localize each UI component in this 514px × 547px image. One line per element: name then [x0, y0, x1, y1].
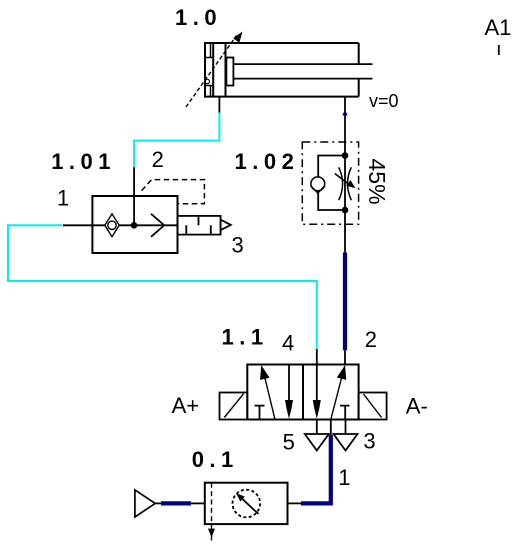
svg-text:2: 2	[365, 327, 377, 352]
svg-text:3: 3	[363, 429, 375, 454]
pilot A- box	[359, 393, 387, 420]
exhaust triangle at port 5	[305, 434, 329, 451]
cylinder 1.0 adjustable-cushioning arrow	[186, 32, 243, 108]
tick under A1	[498, 45, 500, 55]
wire: black stub into port 4	[316, 349, 318, 365]
wire: cylinder right port down to 1.02 (black)	[344, 97, 346, 156]
wire: navy from 1.02 to valve 1.1 port 2	[343, 252, 347, 350]
check valve of 1.02 (ball and seat)	[311, 177, 325, 193]
adjustment arrow of 1.02	[335, 174, 356, 189]
check valve of 1.01 (diamond and ball)	[105, 214, 119, 237]
wire: navy supply line from 0.1 up to valve port 1	[301, 435, 331, 504]
wire: port 5 stub	[316, 420, 318, 435]
compressed air supply triangle	[135, 490, 155, 517]
service unit dial (dashed circle)	[233, 490, 261, 518]
valve 1.1 chamber divider	[302, 365, 304, 420]
svg-text:1: 1	[338, 465, 350, 490]
cylinder 1.0 cushion spigot	[226, 58, 233, 86]
svg-text:A1: A1	[485, 15, 512, 40]
svg-text:A-: A-	[406, 393, 428, 418]
service unit drain	[208, 524, 215, 540]
svg-text:5: 5	[283, 430, 295, 455]
svg-text:4: 4	[282, 331, 294, 356]
pilot dashed outline of 1.01	[142, 180, 205, 204]
pilot A+ box	[220, 393, 248, 420]
wire: port 1 of 1.01 (cyan loop to valve 1.1 port 4)	[8, 225, 317, 349]
svg-text:1.01: 1.01	[51, 149, 116, 174]
exhaust triangle at port 3	[334, 434, 358, 451]
service unit dial arrow	[236, 493, 258, 514]
svg-text:1.0: 1.0	[175, 5, 222, 30]
svg-text:1.1: 1.1	[222, 325, 269, 350]
node (bottom junction of 1.02)	[342, 207, 349, 214]
bypass branch of 1.02	[318, 156, 345, 211]
wire: service unit outlet (black stub)	[288, 502, 302, 504]
right chamber: blocked port 3 (T)	[340, 406, 350, 420]
left chamber: flow 1->4 diagonal arrow	[260, 365, 275, 420]
cylinder 1.0 piston rod	[233, 64, 372, 79]
svg-text:1: 1	[57, 186, 69, 211]
right chamber: flow 4->5 down arrow	[313, 365, 321, 419]
node (top junction of 1.02)	[342, 152, 349, 159]
left chamber: blocked port 5 (T)	[255, 406, 265, 420]
wire: port 3 stub	[345, 420, 347, 435]
svg-text:45%: 45%	[364, 159, 390, 205]
svg-text:1.02: 1.02	[235, 149, 300, 174]
muffler at port 3 of 1.01	[178, 216, 231, 235]
state arrow (navy) on right port line	[342, 110, 347, 116]
svg-text:3: 3	[232, 232, 244, 257]
node (junction inside 1.01)	[131, 222, 138, 229]
wire: into valve 1.01 port 2 (black)	[133, 167, 135, 225]
cylinder 1.0 left end-cap cushioning lines	[205, 43, 213, 97]
valve 1.1 body	[247, 365, 358, 420]
flow control 1.02 dash-dot frame	[302, 142, 358, 224]
wire: supply to service unit (black-navy-black)	[155, 502, 205, 504]
flow arrow inside 1.01	[151, 214, 164, 237]
left chamber: flow 2->3 down arrow	[285, 365, 293, 419]
throttle of 1.02 (arcs)	[339, 167, 352, 200]
svg-text:0.1: 0.1	[192, 447, 239, 472]
flow line of 1.01	[63, 224, 178, 226]
svg-text:v=0: v=0	[369, 91, 399, 111]
wire: cylinder left port to valve 1.01 port 2 (cyan)	[134, 113, 219, 168]
service unit filter divider (dashed)	[211, 483, 213, 524]
quick exhaust valve 1.01 body	[92, 196, 177, 253]
cylinder 1.0 piston	[213, 43, 225, 97]
wire: black stub into port 2	[344, 350, 346, 364]
flow control 1.02 main line	[344, 156, 346, 253]
service unit 0.1 body	[205, 483, 288, 524]
svg-text:2: 2	[152, 147, 164, 172]
cylinder 1.0 body	[205, 43, 359, 97]
svg-text:A+: A+	[172, 393, 200, 418]
wire: port 1 stub	[330, 420, 332, 435]
right chamber: flow 1->2 diagonal arrow	[331, 365, 346, 420]
wire: cylinder left port down (black)	[218, 97, 220, 113]
